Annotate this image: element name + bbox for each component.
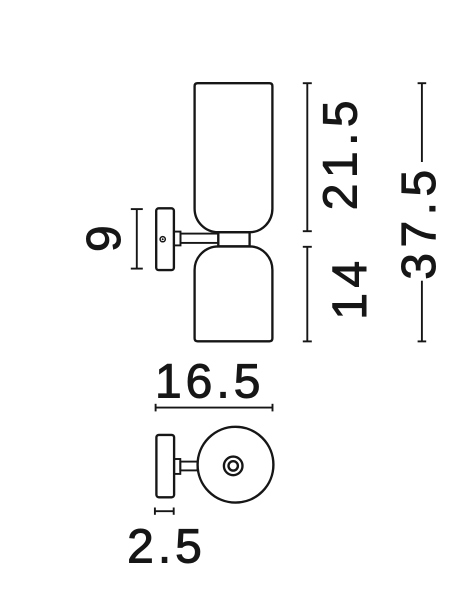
svg-text:14: 14	[324, 255, 377, 319]
svg-text:2.5: 2.5	[127, 520, 206, 573]
arm stub at plate (side view)	[174, 232, 181, 246]
dimension line 16.5 (top view width)	[156, 404, 273, 412]
screw on wall plate	[160, 237, 165, 242]
dimension line 37.5 (outer right)	[418, 83, 427, 341]
dimension line 14 (inner right, lower)	[303, 247, 312, 342]
lamp body circle (top view)	[198, 427, 274, 503]
middle connector block (side view)	[218, 232, 249, 246]
svg-text:21.5: 21.5	[315, 95, 368, 210]
dimension line 9 (left)	[131, 209, 143, 269]
cable gland inner circle (top view)	[229, 461, 238, 470]
wall plate (top view)	[156, 435, 174, 497]
arm (side view)	[181, 234, 219, 243]
dimension line 2.5 (plate thickness)	[155, 508, 174, 515]
dimension line 21.5 (inner right, upper)	[303, 83, 312, 231]
arm (top view)	[180, 462, 197, 471]
svg-text:37.5: 37.5	[393, 164, 446, 279]
lamp lower cylinder (side view)	[195, 246, 273, 341]
svg-text:9: 9	[78, 221, 131, 252]
cable gland outer circle (top view)	[224, 457, 243, 476]
wall plate (side view)	[156, 208, 174, 270]
arm stub at plate (top view)	[174, 459, 180, 474]
svg-text:16.5: 16.5	[155, 355, 264, 408]
lamp upper cylinder (side view)	[195, 83, 273, 232]
